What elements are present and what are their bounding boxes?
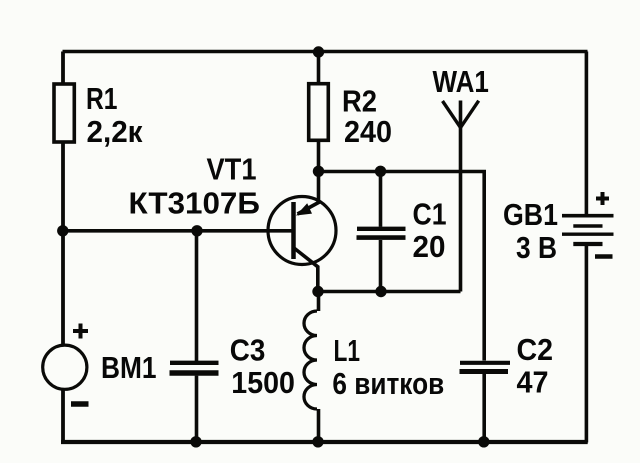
svg-text:3 В: 3 В	[516, 230, 557, 265]
svg-text:2,2к: 2,2к	[87, 114, 143, 149]
svg-text:20: 20	[413, 229, 446, 264]
svg-text:6 витков: 6 витков	[332, 366, 444, 401]
svg-text:R1: R1	[86, 81, 118, 116]
svg-text:WA1: WA1	[433, 64, 489, 99]
svg-text:C2: C2	[517, 332, 554, 367]
svg-text:240: 240	[344, 114, 392, 149]
svg-text:BM1: BM1	[101, 350, 157, 385]
svg-text:47: 47	[517, 365, 549, 400]
svg-text:1500: 1500	[231, 365, 295, 400]
svg-text:GB1: GB1	[503, 197, 558, 232]
svg-text:C1: C1	[413, 197, 447, 232]
svg-text:КТ3107Б: КТ3107Б	[129, 186, 260, 221]
svg-text:VT1: VT1	[207, 152, 257, 187]
svg-text:L1: L1	[334, 333, 361, 368]
svg-text:C3: C3	[230, 332, 266, 367]
